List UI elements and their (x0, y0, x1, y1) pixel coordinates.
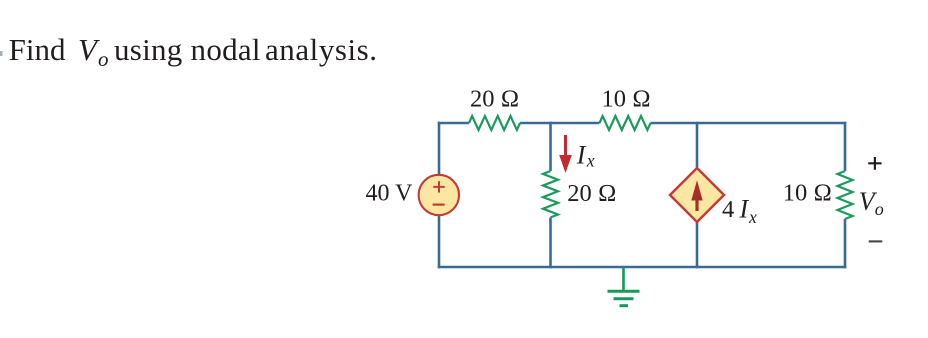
ground (608, 267, 640, 306)
resistor 20 ohm middle vertical (543, 171, 558, 217)
stray mark at left edge (0, 51, 3, 56)
wire top rail middle segment (520, 122, 600, 125)
svg-text:I: I (739, 194, 750, 223)
svg-text:Find: Find (9, 32, 66, 67)
svg-text:I: I (576, 140, 587, 169)
output - terminal label (869, 240, 883, 242)
wire right branch lower (844, 219, 847, 268)
resistor 10 ohm top-right (600, 116, 651, 130)
svg-text:4: 4 (722, 196, 734, 223)
wire node2 branch lower (696, 221, 699, 268)
wire node2 branch upper (696, 122, 699, 169)
arrow inside dependent source (691, 180, 702, 211)
wire left branch upper (438, 122, 441, 176)
wire right branch upper (844, 122, 847, 171)
voltage source 40 V (419, 175, 459, 215)
wire node1 branch lower (549, 218, 552, 269)
plus sign inside source (433, 181, 444, 192)
svg-text:using nodal: using nodal (114, 32, 261, 67)
current arrow Ix (559, 135, 572, 173)
svg-text:10 Ω: 10 Ω (783, 180, 832, 207)
svg-text:analysis.: analysis. (265, 32, 378, 67)
svg-text:10 Ω: 10 Ω (602, 85, 651, 112)
wire bottom rail (438, 266, 847, 269)
wire node1 branch upper (549, 122, 552, 171)
svg-text:x: x (586, 151, 595, 171)
wire top rail left segment (438, 122, 469, 125)
resistor 20 ohm top-left (469, 116, 520, 130)
svg-text:40 V: 40 V (366, 180, 414, 206)
svg-text:x: x (748, 207, 757, 227)
svg-text:o: o (875, 199, 884, 219)
svg-text:o: o (98, 47, 109, 71)
svg-text:20 Ω: 20 Ω (567, 180, 616, 207)
svg-text:20 Ω: 20 Ω (470, 85, 519, 112)
minus sign inside source (433, 204, 445, 206)
output + terminal label (868, 157, 881, 170)
svg-text:V: V (78, 32, 100, 67)
wire top rail right segment (651, 122, 847, 125)
resistor 10 ohm right vertical (838, 171, 853, 219)
wire left branch lower (438, 214, 441, 268)
dependent current source 4Ix (670, 168, 724, 222)
